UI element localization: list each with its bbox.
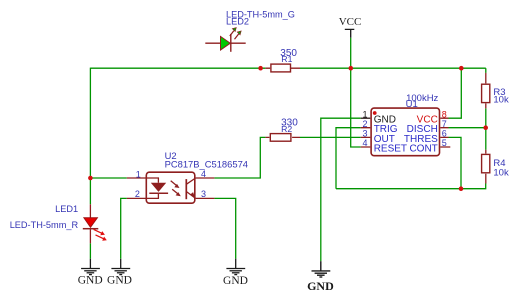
svg-text:1: 1 [136, 169, 141, 179]
svg-text:U1: U1 [406, 99, 418, 110]
svg-text:GND: GND [307, 279, 334, 293]
resistor R4 [482, 150, 509, 184]
wire R3 bottom to R4 top node [485, 108, 487, 149]
wire U2 pin4 up to R2 left [214, 137, 265, 178]
wire U1 pin7 DISCH to R3/R4 node [449, 127, 486, 129]
svg-text:LED2: LED2 [226, 16, 249, 26]
svg-text:5: 5 [442, 138, 447, 148]
svg-text:R1: R1 [281, 54, 292, 64]
svg-text:CONT: CONT [409, 144, 437, 155]
svg-text:3: 3 [201, 189, 206, 199]
ground GND3 [226, 259, 245, 275]
svg-text:4: 4 [201, 169, 206, 179]
svg-text:10k: 10k [493, 167, 509, 178]
wire LED1 cathode to GND1 [89, 243, 91, 258]
wire R2 right to U1 OUT pin3 [300, 136, 361, 138]
wire U2 pin2 to GND2 [121, 198, 127, 258]
junction node THRES bottom rail [459, 186, 464, 191]
svg-text:GND: GND [107, 275, 132, 287]
wire top horizontal VCC net [90, 67, 485, 69]
555 timer U1 [361, 93, 451, 156]
LED LED2 (green, floating) [205, 10, 295, 52]
svg-text:3: 3 [362, 129, 367, 139]
VCC power symbol [339, 16, 362, 38]
svg-text:6: 6 [442, 129, 447, 139]
svg-text:R2: R2 [281, 124, 292, 134]
wire U2 pin1 to left vertical [90, 177, 126, 179]
svg-text:GND: GND [78, 275, 103, 287]
svg-text:10k: 10k [493, 95, 509, 106]
ground GND4 [312, 261, 331, 277]
LED LED1 (red, to GND) [10, 204, 107, 243]
svg-text:2: 2 [362, 119, 367, 129]
wire bottom rail to R4 bottom [336, 184, 486, 189]
svg-text:8: 8 [442, 109, 447, 119]
svg-text:LED-TH-5mm_R: LED-TH-5mm_R [10, 220, 79, 230]
svg-text:LED1: LED1 [55, 204, 78, 214]
junction node U2 pin1 / LED1 [88, 176, 93, 181]
wire U1 pin2 TRIG down to bottom rail [336, 128, 361, 189]
wire U2 pin3 to GND3 [214, 198, 235, 258]
wire U1 pin8 VCC up to top rail [449, 68, 462, 118]
wire top right corner down to R3 [485, 68, 487, 73]
ground GND2 [111, 259, 130, 275]
optocoupler U2 PC817B [127, 150, 248, 203]
resistor R1 [265, 48, 300, 72]
svg-text:RESET: RESET [374, 144, 407, 155]
svg-text:4: 4 [362, 138, 367, 148]
junction node top-R1 [258, 66, 263, 71]
svg-text:GND: GND [223, 275, 248, 287]
svg-text:PC817B_C5186574: PC817B_C5186574 [165, 159, 248, 170]
resistor R2 [265, 118, 300, 142]
junction node pin8-top [459, 66, 464, 71]
svg-text:2: 2 [135, 189, 140, 199]
wire U1 pin6 THRES down to bottom rail [449, 137, 462, 188]
svg-text:7: 7 [442, 119, 447, 129]
wire U1 pin1 GND to GND4 [321, 118, 361, 261]
svg-text:VCC: VCC [339, 16, 362, 28]
junction node VCC-top [349, 66, 354, 71]
svg-text:1: 1 [362, 109, 367, 119]
wire left vertical from top corner down to U2 pin1 and LED1 [89, 68, 91, 205]
ground GND1 [81, 259, 100, 275]
resistor R3 [482, 73, 509, 109]
wire VCC stem down through top wire to U1 RESET pin4 [351, 38, 361, 147]
junction node DISCH R3/R4 [483, 125, 488, 130]
